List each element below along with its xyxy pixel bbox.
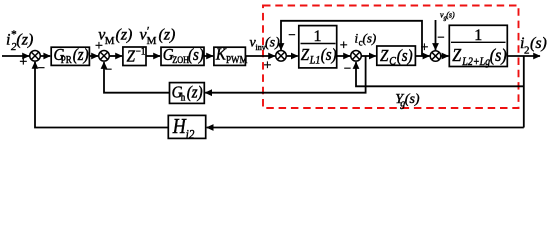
wire J4 to Z_C [361,55,376,57]
svg-text:PR: PR [61,55,72,67]
svg-text:(z): (z) [16,32,33,49]
svg-text:ZOH: ZOH [172,55,189,66]
svg-text:Z: Z [127,48,136,66]
svg-text:(s): (s) [363,31,377,46]
wire K_PWM to J3 [245,55,275,57]
svg-text:(s): (s) [188,46,204,64]
svg-text:1: 1 [314,28,322,45]
wire input into J1 [2,55,29,57]
node label i2*(z) [6,29,33,54]
svg-text:Z: Z [380,47,389,65]
svg-text:+: + [340,39,348,54]
svg-text:i2: i2 [186,126,195,141]
svg-text:−: − [344,60,351,75]
block Z_C(s) [377,46,416,68]
svg-text:(z): (z) [159,27,176,44]
svg-text:+: + [264,58,272,73]
node label v_inv(s) [250,36,281,53]
svg-text:(z): (z) [187,84,203,102]
red dashed plant boundary box [263,6,519,109]
wire i2 feedback trunk down from output node [523,56,525,128]
svg-text:(s): (s) [490,45,507,65]
summing junction J2 [99,51,110,62]
node label i_c(s) [355,31,377,48]
svg-text:−: − [437,30,444,45]
svg-text:(z): (z) [116,27,133,44]
wire 1/Z_L1 to J4 [337,55,350,57]
svg-text:h: h [181,92,186,104]
svg-text:−: − [38,60,45,75]
block H_i2 [168,115,205,142]
summing junction J3 [276,51,287,62]
summing junction J1 [30,51,41,62]
svg-text:L1: L1 [309,54,320,67]
block G_PR(z) [51,46,89,66]
wire J1 to G_PR [40,55,50,57]
svg-text:(s): (s) [321,46,337,64]
wire G_PR to J2 [89,55,98,57]
block K_PWM [214,46,248,67]
svg-text:(s): (s) [530,35,547,52]
svg-text:(s): (s) [397,47,413,65]
node label v'_M(z) [140,24,176,48]
wire output i2(s) [507,55,540,57]
wire Z^-1 to G_ZOH [146,55,160,57]
wire i2 feedback branch into J4 bottom [356,62,524,86]
svg-text:+: + [19,55,27,70]
svg-text:−: − [288,27,295,42]
wire H_i2 output left and up into J1 bottom [35,62,168,128]
block Z^-1 [123,46,146,66]
wire H_i2 input from i2 trunk [207,127,524,129]
block G_h(z) [170,83,205,104]
block G_ZOH(s) [161,46,204,65]
wire G_h output left and up into J2 bottom [104,62,170,93]
wire J3 to 1/Z_L1 block [286,55,298,57]
svg-text:2: 2 [524,45,530,57]
wire Z_C to J5 [415,55,429,57]
svg-text:(s): (s) [265,36,280,51]
svg-text:Z: Z [452,45,461,65]
svg-text:M: M [105,35,115,47]
node label v_M(z) [98,27,132,48]
svg-text:C: C [389,55,396,68]
wire i_c pickup down and left into G_h input [205,56,365,93]
svg-text:L2+Lg: L2+Lg [461,55,490,68]
node label v_g(s) [440,11,455,22]
summing junction J5 [430,51,441,62]
svg-text:Z: Z [301,46,310,64]
svg-text:(z): (z) [73,46,89,64]
wire J5 to 1/Z_L2+Lg block [441,55,449,57]
node label i2(s) [520,35,547,57]
svg-text:M: M [147,35,157,47]
wire J2 to Z^-1 [109,55,122,57]
wire G_ZOH to K_PWM [204,55,213,57]
block 1/Z_L2+Lg(s) [449,25,507,68]
svg-text:−1: −1 [136,46,146,58]
wire v_g input arrow into J5 top [435,20,437,50]
summing junction J4 [351,51,362,62]
svg-text:(s): (s) [446,11,455,20]
svg-text:PWM: PWM [226,54,248,66]
svg-text:−: − [105,62,112,77]
wire v_c feedback from node after Z_C up and left into J3 top [281,21,422,56]
label Y_g(s) [395,92,420,110]
block 1/Z_L1(s) [299,26,337,68]
svg-text:(s): (s) [405,92,420,107]
